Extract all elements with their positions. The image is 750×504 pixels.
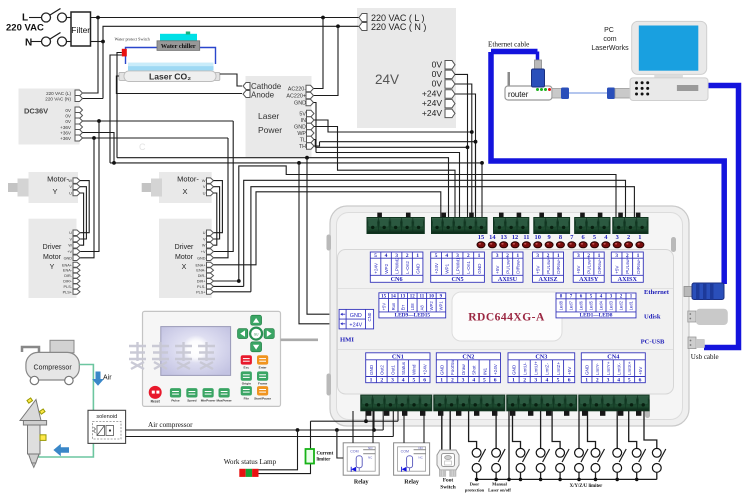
svg-text:LPWM2: LPWM2 — [394, 257, 399, 274]
svg-text:Usb cable: Usb cable — [691, 353, 719, 361]
svg-text:WP1: WP1 — [439, 301, 444, 311]
svg-text:LmtY+: LmtY+ — [606, 361, 611, 375]
svg-text:V: V — [203, 184, 206, 189]
svg-text:File: File — [244, 396, 250, 400]
svg-text:Work status Lamp: Work status Lamp — [224, 458, 277, 466]
svg-text:FootSw: FootSw — [450, 359, 455, 375]
svg-text:+24V: +24V — [422, 98, 442, 108]
svg-text:U: U — [69, 231, 72, 235]
svg-text:3: 3 — [616, 234, 619, 241]
svg-text:Water chiller: Water chiller — [161, 43, 196, 50]
svg-text:Led4: Led4 — [599, 300, 604, 310]
svg-text:4: 4 — [385, 253, 388, 259]
svg-text:DIRsw-: DIRsw- — [556, 258, 561, 274]
svg-text:GND: GND — [294, 125, 306, 131]
svg-text:11: 11 — [419, 295, 424, 300]
svg-text:Wind: Wind — [412, 364, 417, 375]
svg-text:Speed: Speed — [187, 398, 196, 402]
svg-text:LED1—LED8: LED1—LED8 — [580, 313, 613, 319]
svg-text:4: 4 — [445, 253, 448, 259]
svg-text:6: 6 — [568, 378, 571, 384]
svg-text:IN: IN — [301, 118, 306, 124]
svg-text:2: 2 — [380, 378, 383, 384]
svg-text:+24V: +24V — [422, 363, 427, 375]
svg-text:6: 6 — [423, 378, 426, 384]
svg-text:LmtZ+: LmtZ+ — [556, 362, 561, 375]
svg-text:IN1: IN1 — [482, 367, 487, 375]
svg-text:12: 12 — [410, 295, 416, 300]
svg-text:Power: Power — [258, 125, 282, 135]
svg-text:220 VAC: 220 VAC — [6, 23, 44, 34]
svg-text:Ethernet: Ethernet — [644, 289, 670, 296]
svg-text:Anode: Anode — [251, 91, 275, 100]
svg-text:220 VAC (L): 220 VAC (L) — [46, 91, 71, 96]
svg-text:ENA-: ENA- — [63, 269, 73, 273]
svg-text:5: 5 — [593, 234, 596, 241]
svg-text:2: 2 — [451, 378, 454, 384]
svg-text:PLS-: PLS- — [197, 285, 206, 289]
svg-text:DIRsw-: DIRsw- — [636, 258, 641, 274]
svg-text:Motor: Motor — [175, 254, 194, 261]
svg-text:GU: GU — [254, 332, 259, 336]
svg-text:Relay: Relay — [354, 480, 369, 486]
svg-text:+24V: +24V — [373, 262, 378, 274]
svg-text:5: 5 — [435, 253, 438, 259]
svg-text:1: 1 — [557, 253, 560, 259]
svg-text:ENA-: ENA- — [196, 269, 206, 273]
svg-text:9: 9 — [547, 234, 550, 241]
svg-text:limiter: limiter — [317, 458, 332, 463]
svg-text:RDC644XG-A: RDC644XG-A — [468, 312, 545, 324]
svg-text:Led3: Led3 — [609, 300, 614, 310]
svg-text:DIR+: DIR+ — [63, 280, 73, 284]
svg-text:3: 3 — [536, 253, 539, 259]
svg-text:13: 13 — [400, 295, 406, 300]
svg-text:PLS+: PLS+ — [63, 290, 73, 294]
svg-text:router: router — [508, 90, 529, 99]
svg-text:+5V: +5V — [567, 366, 572, 375]
svg-text:1: 1 — [416, 253, 419, 259]
svg-text:Shot: Shot — [472, 365, 477, 375]
svg-text:Ethernet cable: Ethernet cable — [488, 40, 529, 48]
svg-text:11: 11 — [523, 234, 529, 241]
svg-text:Relay: Relay — [404, 480, 419, 486]
svg-text:LmtZ-: LmtZ- — [545, 363, 550, 375]
svg-text:TH: TH — [299, 144, 306, 150]
svg-text:CN1: CN1 — [392, 353, 404, 360]
svg-text:3: 3 — [615, 253, 618, 259]
svg-text:GND: GND — [197, 256, 206, 260]
svg-text:2: 2 — [627, 234, 630, 241]
svg-text:CN4: CN4 — [607, 353, 619, 360]
svg-text:+5V: +5V — [576, 265, 581, 274]
svg-text:12: 12 — [512, 234, 518, 241]
svg-text:ENA+: ENA+ — [195, 263, 206, 267]
svg-text:DIR+: DIR+ — [197, 280, 207, 284]
svg-text:Led5: Led5 — [589, 300, 594, 310]
svg-text:0V: 0V — [65, 113, 72, 118]
svg-text:Motor-: Motor- — [177, 175, 199, 184]
svg-text:GND: GND — [415, 263, 420, 274]
svg-text:PC: PC — [604, 27, 614, 34]
svg-text:MinPower: MinPower — [201, 398, 216, 402]
svg-text:LED9—LED15: LED9—LED15 — [394, 313, 430, 319]
svg-text:Esc: Esc — [244, 365, 250, 369]
svg-text:0V: 0V — [432, 69, 443, 79]
svg-text:5: 5 — [483, 378, 486, 384]
svg-text:WP1: WP1 — [445, 263, 450, 273]
svg-text:1: 1 — [598, 253, 601, 259]
svg-text:L-On2: L-On2 — [405, 261, 410, 274]
svg-text:8: 8 — [559, 234, 562, 241]
svg-text:AC220+: AC220+ — [286, 94, 306, 100]
svg-text:3: 3 — [391, 378, 394, 384]
svg-text:Driver: Driver — [175, 244, 194, 251]
svg-text:15: 15 — [478, 234, 484, 241]
svg-text:4: 4 — [617, 378, 620, 384]
svg-text:DIR-: DIR- — [198, 274, 207, 278]
svg-text:CN0: CN0 — [367, 312, 372, 321]
svg-text:2: 2 — [406, 253, 409, 259]
svg-text:Laser on/off: Laser on/off — [488, 488, 511, 493]
svg-text:1: 1 — [478, 253, 481, 259]
svg-text:Motor: Motor — [43, 254, 62, 261]
svg-text:COM: COM — [401, 449, 409, 453]
svg-text:3: 3 — [534, 378, 537, 384]
svg-text:13: 13 — [501, 234, 507, 241]
svg-text:3: 3 — [496, 253, 499, 259]
svg-text:3: 3 — [607, 378, 610, 384]
svg-text:Driver: Driver — [43, 244, 62, 251]
svg-text:1: 1 — [370, 378, 373, 384]
svg-text:Manual: Manual — [492, 482, 507, 487]
svg-text:TL: TL — [300, 138, 306, 144]
svg-text:CN3: CN3 — [535, 353, 547, 360]
svg-text:com: com — [603, 36, 616, 43]
svg-text:W: W — [68, 178, 72, 183]
svg-text:+24V: +24V — [422, 108, 442, 118]
svg-text:W: W — [68, 244, 72, 248]
svg-text:5: 5 — [557, 378, 560, 384]
svg-text:0V: 0V — [65, 108, 72, 113]
svg-text:0V: 0V — [65, 119, 72, 124]
svg-text:5: 5 — [628, 378, 631, 384]
svg-text:+36V: +36V — [60, 125, 72, 130]
svg-text:5: 5 — [374, 253, 377, 259]
svg-text:Origin: Origin — [242, 382, 251, 386]
svg-text:Current: Current — [317, 452, 334, 457]
svg-text:10: 10 — [535, 234, 541, 241]
svg-text:Compressor: Compressor — [34, 365, 73, 372]
svg-text:+24V: +24V — [493, 363, 498, 375]
svg-text:+24V: +24V — [422, 89, 442, 99]
svg-text:GND: GND — [64, 256, 73, 260]
svg-text:Out2: Out2 — [380, 365, 385, 375]
svg-text:GND: GND — [511, 364, 516, 375]
svg-text:Y: Y — [52, 187, 57, 196]
svg-text:Led8: Led8 — [559, 300, 564, 310]
svg-text:Run: Run — [391, 302, 396, 310]
svg-text:+24V: +24V — [349, 323, 362, 329]
svg-text:+5V: +5V — [638, 366, 643, 375]
svg-text:C: C — [139, 142, 146, 152]
svg-text:Motor-: Motor- — [47, 175, 69, 184]
svg-text:CN2: CN2 — [462, 353, 474, 360]
svg-text:PLS+: PLS+ — [196, 290, 206, 294]
svg-text:DIRsw-: DIRsw- — [597, 258, 602, 274]
svg-text:Air: Air — [103, 375, 112, 382]
svg-text:Status: Status — [401, 361, 406, 375]
svg-text:PULsw+: PULsw+ — [505, 256, 510, 274]
svg-text:AXISY: AXISY — [579, 276, 599, 283]
svg-text:Laser CO₂: Laser CO₂ — [149, 72, 191, 82]
svg-text:+36V: +36V — [60, 136, 72, 141]
svg-text:DIRsw-: DIRsw- — [516, 258, 521, 274]
svg-text:+36V: +36V — [60, 130, 72, 135]
svg-text:LPWM1: LPWM1 — [455, 257, 460, 274]
svg-text:1: 1 — [585, 378, 588, 384]
svg-text:10: 10 — [429, 295, 435, 300]
svg-text:COM: COM — [350, 449, 358, 453]
svg-text:1: 1 — [516, 253, 519, 259]
svg-text:DC36V: DC36V — [24, 107, 48, 116]
svg-text:+5V: +5V — [535, 265, 540, 274]
svg-text:GND: GND — [369, 364, 374, 375]
svg-text:GND: GND — [584, 364, 589, 375]
svg-text:Err: Err — [400, 304, 405, 310]
svg-text:PC-USB: PC-USB — [641, 338, 665, 345]
svg-text:1: 1 — [512, 378, 515, 384]
svg-text:Out1: Out1 — [390, 365, 395, 375]
svg-text:+5V: +5V — [381, 303, 386, 311]
svg-text:U: U — [69, 191, 72, 196]
svg-text:5: 5 — [413, 378, 416, 384]
svg-text:L08: L08 — [410, 303, 415, 311]
svg-text:6: 6 — [494, 378, 497, 384]
svg-text:15: 15 — [381, 295, 387, 300]
svg-text:4: 4 — [402, 378, 405, 384]
svg-text:1: 1 — [440, 378, 443, 384]
svg-text:LmtY-: LmtY- — [595, 363, 600, 375]
svg-text:2: 2 — [467, 253, 470, 259]
svg-text:Start/Pause: Start/Pause — [254, 396, 271, 400]
svg-text:GND: GND — [294, 101, 306, 107]
svg-text:220 VAC (N): 220 VAC (N) — [45, 96, 71, 101]
svg-text:24V: 24V — [375, 72, 399, 87]
svg-text:14: 14 — [489, 234, 496, 241]
svg-text:LmtU+: LmtU+ — [534, 361, 539, 375]
svg-text:2: 2 — [596, 378, 599, 384]
svg-text:CN5: CN5 — [452, 276, 464, 283]
svg-text:2: 2 — [523, 378, 526, 384]
svg-text:NO: NO — [368, 446, 373, 450]
svg-text:PULsw+: PULsw+ — [546, 256, 551, 274]
svg-text:W: W — [202, 244, 206, 248]
svg-text:PULsw+: PULsw+ — [625, 256, 630, 274]
svg-text:0V: 0V — [432, 59, 443, 69]
svg-text:Led1: Led1 — [629, 300, 634, 310]
svg-text:Pulse: Pulse — [171, 398, 180, 402]
svg-text:GND: GND — [439, 364, 444, 375]
svg-text:N: N — [25, 38, 32, 49]
svg-text:+V: +V — [201, 250, 206, 254]
svg-text:Air compressor: Air compressor — [148, 421, 193, 429]
svg-text:WP2: WP2 — [384, 263, 389, 273]
svg-text:6: 6 — [639, 378, 642, 384]
svg-text:Water protect Switch: Water protect Switch — [115, 37, 151, 42]
svg-text:Door: Door — [470, 482, 480, 487]
svg-text:Switch: Switch — [440, 485, 456, 491]
svg-text:Led6: Led6 — [579, 300, 584, 310]
svg-text:Reset: Reset — [151, 400, 161, 404]
svg-text:Led2: Led2 — [619, 300, 624, 310]
svg-text:X: X — [182, 264, 187, 271]
svg-text:L-On1: L-On1 — [466, 261, 471, 274]
svg-text:X/Y/Z/U limiter: X/Y/Z/U limiter — [570, 484, 604, 489]
svg-text:Frame: Frame — [258, 382, 268, 386]
svg-text:W: W — [202, 178, 206, 183]
svg-text:4: 4 — [472, 378, 475, 384]
svg-text:AXISZ: AXISZ — [539, 276, 558, 283]
svg-text:DIR-: DIR- — [64, 274, 73, 278]
svg-text:+24V: +24V — [434, 262, 439, 274]
svg-text:solenoid: solenoid — [96, 414, 117, 420]
svg-text:WP2: WP2 — [429, 301, 434, 311]
svg-text:protection: protection — [465, 488, 485, 493]
svg-text:AXISU: AXISU — [498, 276, 518, 283]
svg-text:Led7: Led7 — [569, 300, 574, 310]
svg-text:3: 3 — [577, 253, 580, 259]
svg-text:AXISX: AXISX — [618, 276, 638, 283]
svg-text:Y: Y — [50, 264, 55, 271]
svg-text:PULsw+: PULsw+ — [587, 256, 592, 274]
svg-text:PLS-: PLS- — [64, 285, 73, 289]
svg-text:AC220-: AC220- — [288, 87, 306, 93]
svg-text:Filter: Filter — [71, 25, 90, 35]
svg-text:GND: GND — [350, 313, 362, 319]
svg-text:220 VAC ( N ): 220 VAC ( N ) — [371, 22, 426, 32]
svg-text:HMI: HMI — [340, 337, 354, 344]
svg-text:Laser: Laser — [258, 111, 279, 121]
svg-text:Enter: Enter — [259, 365, 268, 369]
svg-text:5V: 5V — [299, 112, 306, 118]
svg-text:1: 1 — [638, 234, 641, 241]
svg-text:LaserWorks: LaserWorks — [591, 45, 629, 52]
svg-text:3: 3 — [462, 378, 465, 384]
svg-text:+5V: +5V — [614, 265, 619, 274]
svg-text:+5V: +5V — [495, 265, 500, 274]
svg-text:LmtU-: LmtU- — [522, 362, 527, 375]
svg-text:Draw: Draw — [461, 364, 466, 375]
svg-text:LmtX+: LmtX+ — [627, 361, 632, 375]
svg-text:Udisk: Udisk — [644, 314, 661, 321]
svg-text:Foot: Foot — [443, 478, 454, 484]
svg-text:LmtX-: LmtX- — [616, 362, 621, 375]
svg-text:+V: +V — [67, 250, 72, 254]
svg-text:CN6: CN6 — [391, 276, 403, 283]
svg-text:14: 14 — [391, 295, 397, 300]
svg-text:A8: A8 — [419, 305, 424, 311]
svg-text:0V: 0V — [432, 79, 443, 89]
svg-text:ENA+: ENA+ — [62, 263, 73, 267]
svg-text:WP: WP — [297, 131, 306, 137]
svg-text:U: U — [203, 231, 206, 235]
svg-text:X: X — [182, 187, 187, 196]
svg-text:NO: NO — [418, 446, 423, 450]
svg-text:V: V — [69, 184, 72, 189]
svg-text:GND: GND — [477, 263, 482, 274]
svg-text:MaxPower: MaxPower — [216, 398, 232, 402]
svg-text:4: 4 — [546, 378, 549, 384]
svg-text:U: U — [203, 191, 206, 196]
svg-text:1: 1 — [637, 253, 640, 259]
